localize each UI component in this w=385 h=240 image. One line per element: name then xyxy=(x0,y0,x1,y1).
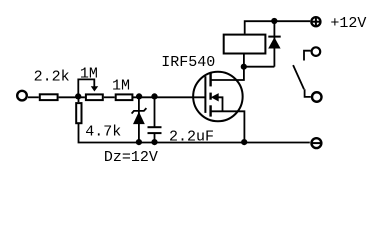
svg-text:+12V: +12V xyxy=(330,15,366,32)
svg-text:2.2k: 2.2k xyxy=(34,69,70,86)
svg-text:1M: 1M xyxy=(112,78,130,95)
svg-text:2.2uF: 2.2uF xyxy=(169,129,214,146)
svg-text:Dz=12V: Dz=12V xyxy=(104,149,158,166)
svg-text:4.7k: 4.7k xyxy=(85,124,121,141)
svg-text:IRF540: IRF540 xyxy=(161,54,215,71)
svg-text:1M: 1M xyxy=(80,65,98,82)
